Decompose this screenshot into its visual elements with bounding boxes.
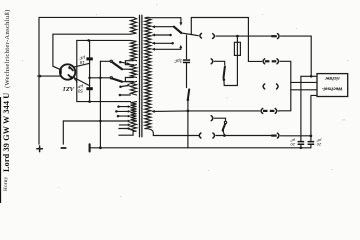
transformer T1 primary section 1: [131, 17, 137, 34]
vertical x187 with C3 and switch S5: [187, 35, 190, 148]
node x100.4 y121: [99, 120, 102, 123]
capacitor C5 bottom lead: [310, 145, 312, 148]
wire y121 to minus terminal: [63, 120, 128, 122]
wire y40 to winding sec2: [77, 39, 131, 41]
node y76.3: [310, 75, 313, 78]
tap y95: [119, 94, 131, 97]
bus bottom: [90, 147, 311, 149]
switch S1 blade: [112, 62, 130, 69]
switch S2 pivot: [110, 77, 112, 79]
transformer T1 primary section 2: [131, 40, 137, 60]
tube V1 anode stroke 2: [68, 75, 73, 79]
transformer T1 primary section 6: [131, 121, 137, 131]
wire X2 to box pins vertical: [280, 61, 291, 111]
transformer T1 tap loop 2: [125, 78, 133, 82]
node blade bottom: [223, 134, 226, 137]
svg-text:µF: µF: [77, 84, 83, 89]
node cap1 top: [87, 39, 90, 42]
node cap mid tap: [88, 77, 91, 80]
node heater x187.9: [187, 110, 190, 113]
switch S1 pivot: [110, 60, 112, 62]
wire tube top-right diagonal: [74, 63, 90, 67]
transformer T1 secondary top lead: [145, 16, 181, 19]
svg-text:µF: µF: [316, 138, 321, 143]
svg-text:3µF: 3µF: [173, 58, 182, 63]
label C4 rotated: [290, 138, 296, 147]
empty socket pair: [263, 84, 278, 89]
title Lord 39 GW W 344 U (rotated): [2, 92, 11, 171]
switch S4 mid (mains): [211, 59, 237, 86]
wire winding bottom lead: [119, 131, 133, 135]
label C2 50uF rotated: [77, 84, 83, 94]
terminal plus: [37, 146, 43, 152]
transformer T1 core: [140, 15, 142, 137]
capacitor C5 plates: [308, 141, 315, 145]
fuse F1: [234, 36, 240, 85]
wire rectangle loop top: [191, 18, 261, 62]
wire box pin1 y82.4: [291, 81, 317, 83]
secondary tap y35 contact: [152, 34, 172, 37]
capacitor C3 plates: [183, 59, 190, 63]
page edge: [0, 97, 1, 203]
connector X1 socket pair y36: [200, 33, 214, 38]
svg-text:richter: richter: [324, 76, 340, 81]
wire box bottom pin to C5: [311, 95, 317, 141]
label C5 rotated: [316, 138, 322, 147]
wire heater to vertical: [280, 110, 291, 112]
node tube input: [39, 75, 42, 78]
node y135.9 x310.9: [310, 135, 313, 138]
tap y111.4: [115, 110, 131, 113]
secondary tap y43.3 contact: [152, 42, 174, 45]
switch S2 fixed contact: [119, 84, 130, 88]
tap y106.6: [117, 105, 131, 108]
wire y101.6: [77, 101, 131, 103]
capacitor C4 plates: [298, 141, 305, 145]
subtitle (Wechselrichter-Anschluss) rotated: [4, 9, 11, 88]
label AZ1 rotated: [63, 85, 75, 92]
label C1 16uF rotated: [79, 55, 85, 65]
wire secondary bottom lead: [145, 129, 198, 136]
secondary tap y49.3 with up arrow: [152, 45, 183, 51]
tube V1 inner cathode bar: [60, 69, 62, 74]
transformer T1 primary section 3: [131, 65, 137, 78]
wire tube bottom-right diagonal: [74, 77, 90, 85]
wire tube left input: [38, 75, 61, 77]
wire box pin3 y89.8: [291, 89, 317, 91]
tap y124.9: [119, 124, 131, 127]
svg-text:µF: µF: [290, 138, 295, 143]
wire top right corner down: [281, 36, 312, 76]
transformer T1 primary section 4: [131, 81, 137, 95]
capacitor C2 plate: [86, 87, 92, 90]
transformer T1 secondary winding: [145, 18, 151, 129]
wire second loop vertical and diagonal to tube: [53, 34, 61, 70]
connector X3 pin y36: [271, 34, 279, 39]
wire vertical to C4: [300, 76, 302, 141]
node x100.4 bus: [99, 146, 102, 149]
title Horny (brand, rotated): [3, 176, 9, 190]
switch S2 blade: [112, 79, 130, 82]
tube V1 AZ1 envelope: [60, 64, 75, 79]
wire tube cathode hook: [75, 79, 77, 83]
box Wechselrichter: [317, 74, 348, 97]
secondary tap y26.7 with switch S3 blade: [152, 25, 199, 36]
wire selector feed vertical x100.4: [99, 61, 101, 148]
node fuse top: [236, 35, 239, 38]
svg-text:Wechsel-: Wechsel-: [322, 87, 343, 92]
switch S1 fixed contact: [119, 61, 131, 66]
connector X6 pin y135.6: [271, 133, 311, 138]
label C3 3uF rotated: [173, 58, 182, 63]
contact arrow down (selector fixed): [179, 18, 182, 26]
transformer T1 tap loop 1: [125, 61, 133, 65]
tap y116.1: [117, 115, 131, 118]
connector X5 socket pair y135.5: [199, 133, 214, 138]
wire left vertical to plus terminal: [38, 17, 40, 144]
wire capacitor chain vertical: [89, 40, 91, 101]
node C4 bus: [300, 146, 303, 149]
wire box pin2 y76.3: [301, 75, 317, 77]
wire riser x76.8: [76, 40, 78, 101]
arrow tap y121: [128, 120, 131, 123]
capacitor C1 plate: [86, 57, 92, 60]
wire y36 to fuse and right: [216, 35, 271, 37]
wire minus vertical: [62, 121, 64, 144]
transformer T1 primary section 5 dense: [131, 102, 137, 121]
heater tap wire from secondary: [151, 110, 259, 113]
terminal minus: [61, 147, 66, 149]
wire y135.5 through to right: [216, 135, 271, 137]
wire top outer: [39, 16, 133, 18]
switch S6 bottom: [211, 116, 226, 135]
wire second loop y34: [53, 33, 131, 35]
scan speckles: [22, 4, 348, 197]
terminal chassis bar: [89, 144, 91, 151]
node cap chain bottom: [88, 100, 91, 103]
tube V1 anode stroke 1: [68, 67, 73, 71]
tap y128.5: [119, 127, 131, 130]
node x100.4 y77.8: [99, 77, 102, 80]
svg-text:µF: µF: [79, 55, 85, 60]
connector X2 pin-pair y61: [263, 59, 279, 64]
capacitor C4 bottom lead: [300, 145, 302, 148]
wire pivot1 feed: [100, 60, 110, 62]
connector X4 pin-pair y110.9: [261, 108, 280, 113]
wire pivot2 feed: [90, 77, 111, 79]
svg-text:AZ1: AZ1: [63, 85, 75, 92]
label Wechselrichter rotated: [322, 76, 343, 92]
